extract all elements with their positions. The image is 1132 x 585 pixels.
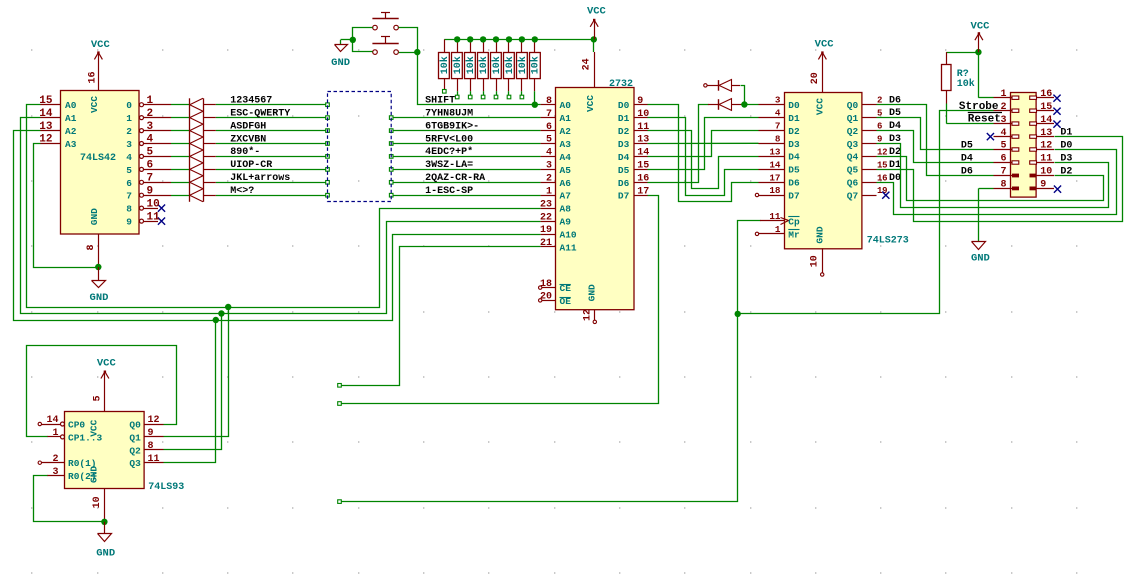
svg-text:ASDFGH: ASDFGH bbox=[230, 121, 266, 132]
svg-text:12: 12 bbox=[39, 134, 52, 146]
svg-text:8: 8 bbox=[546, 96, 552, 107]
svg-text:VCC: VCC bbox=[815, 98, 826, 115]
svg-text:14: 14 bbox=[39, 108, 53, 120]
svg-text:12: 12 bbox=[1040, 141, 1052, 152]
svg-text:A8: A8 bbox=[560, 204, 572, 215]
svg-text:1-ESC-SP: 1-ESC-SP bbox=[425, 186, 473, 197]
svg-text:7: 7 bbox=[126, 191, 132, 202]
svg-text:D1: D1 bbox=[1060, 127, 1072, 138]
svg-text:7: 7 bbox=[147, 173, 154, 185]
svg-text:3: 3 bbox=[1000, 115, 1006, 126]
svg-text:9: 9 bbox=[148, 428, 154, 439]
svg-text:D5: D5 bbox=[618, 165, 630, 176]
svg-text:A11: A11 bbox=[560, 242, 577, 253]
svg-text:10: 10 bbox=[92, 496, 103, 508]
svg-text:16: 16 bbox=[1040, 89, 1052, 100]
svg-text:4: 4 bbox=[1000, 128, 1006, 139]
svg-text:10k: 10k bbox=[439, 56, 451, 74]
svg-text:Q7: Q7 bbox=[847, 191, 859, 202]
svg-text:1: 1 bbox=[775, 224, 781, 235]
svg-text:VCC: VCC bbox=[91, 39, 111, 51]
svg-text:13: 13 bbox=[637, 135, 649, 146]
svg-text:1: 1 bbox=[126, 113, 132, 124]
svg-text:4EDC?+P*: 4EDC?+P* bbox=[425, 146, 473, 158]
svg-text:Q1: Q1 bbox=[847, 113, 859, 124]
svg-text:15: 15 bbox=[637, 161, 649, 172]
svg-text:12: 12 bbox=[582, 309, 593, 321]
svg-text:D3: D3 bbox=[618, 139, 630, 150]
svg-text:2: 2 bbox=[546, 174, 552, 185]
svg-text:Mr: Mr bbox=[788, 229, 800, 240]
svg-text:5: 5 bbox=[546, 135, 552, 146]
svg-text:1: 1 bbox=[147, 95, 154, 107]
svg-text:Q0: Q0 bbox=[847, 100, 859, 111]
svg-text:VCC: VCC bbox=[971, 20, 991, 32]
svg-text:SHIFT: SHIFT bbox=[425, 96, 455, 107]
svg-text:D5: D5 bbox=[961, 141, 973, 152]
svg-text:D1: D1 bbox=[788, 113, 800, 124]
svg-text:9: 9 bbox=[1040, 180, 1046, 191]
svg-text:VCC: VCC bbox=[97, 357, 117, 369]
svg-text:3: 3 bbox=[147, 121, 154, 133]
svg-text:13: 13 bbox=[769, 146, 781, 157]
svg-text:Strobe: Strobe bbox=[959, 101, 999, 113]
svg-text:3: 3 bbox=[52, 467, 58, 478]
svg-text:9: 9 bbox=[637, 96, 643, 107]
svg-text:2QAZ-CR-RA: 2QAZ-CR-RA bbox=[425, 173, 485, 184]
svg-text:20: 20 bbox=[540, 292, 552, 303]
svg-text:GND: GND bbox=[96, 547, 115, 559]
svg-text:Q6: Q6 bbox=[847, 178, 859, 189]
svg-text:R0(2): R0(2) bbox=[68, 471, 97, 482]
svg-text:7: 7 bbox=[775, 121, 781, 132]
svg-text:R0(1): R0(1) bbox=[68, 458, 97, 469]
svg-text:A0: A0 bbox=[560, 100, 572, 111]
svg-text:1234567: 1234567 bbox=[230, 96, 272, 107]
svg-text:5: 5 bbox=[93, 395, 104, 401]
svg-text:D1: D1 bbox=[618, 113, 630, 124]
svg-text:VCC: VCC bbox=[585, 95, 596, 112]
svg-text:23: 23 bbox=[540, 199, 552, 210]
svg-text:10k: 10k bbox=[491, 56, 503, 74]
svg-text:16: 16 bbox=[637, 174, 649, 185]
svg-text:VCC: VCC bbox=[587, 5, 607, 17]
svg-text:890*-: 890*- bbox=[230, 146, 260, 158]
svg-text:13: 13 bbox=[39, 121, 53, 133]
svg-text:8: 8 bbox=[86, 244, 97, 250]
svg-text:2: 2 bbox=[147, 108, 154, 120]
svg-text:Q1: Q1 bbox=[129, 432, 141, 443]
svg-text:Q2: Q2 bbox=[847, 126, 859, 137]
svg-text:A1: A1 bbox=[65, 113, 77, 124]
svg-text:14: 14 bbox=[46, 415, 58, 426]
svg-text:GND: GND bbox=[90, 292, 109, 304]
svg-text:74LS93: 74LS93 bbox=[148, 482, 184, 493]
svg-text:7: 7 bbox=[1000, 167, 1006, 178]
svg-text:D3: D3 bbox=[1060, 153, 1072, 164]
svg-text:4: 4 bbox=[126, 152, 132, 163]
svg-text:JKL+arrows: JKL+arrows bbox=[230, 173, 290, 184]
svg-text:74LS273: 74LS273 bbox=[867, 236, 909, 247]
svg-text:10k: 10k bbox=[465, 56, 477, 74]
svg-text:Q2: Q2 bbox=[129, 445, 141, 456]
svg-text:3: 3 bbox=[126, 139, 132, 150]
svg-text:8: 8 bbox=[126, 204, 132, 215]
svg-text:19: 19 bbox=[540, 225, 552, 236]
svg-text:D3: D3 bbox=[788, 139, 800, 150]
svg-text:11: 11 bbox=[1040, 154, 1052, 165]
svg-text:4: 4 bbox=[775, 108, 781, 119]
svg-text:D4: D4 bbox=[618, 152, 630, 163]
svg-text:A5: A5 bbox=[560, 165, 572, 176]
svg-text:UIOP-CR: UIOP-CR bbox=[230, 160, 272, 171]
svg-text:11: 11 bbox=[769, 211, 781, 222]
svg-text:9: 9 bbox=[147, 185, 154, 197]
svg-text:Q5: Q5 bbox=[847, 165, 859, 176]
svg-text:8: 8 bbox=[1000, 180, 1006, 191]
svg-text:14: 14 bbox=[1040, 115, 1052, 126]
svg-text:6: 6 bbox=[546, 122, 552, 133]
svg-text:A4: A4 bbox=[560, 152, 572, 163]
svg-text:CP0: CP0 bbox=[68, 420, 85, 431]
svg-text:7YHN8UJM: 7YHN8UJM bbox=[425, 108, 473, 119]
svg-text:D7: D7 bbox=[788, 191, 800, 202]
svg-text:8: 8 bbox=[775, 134, 781, 145]
svg-text:2: 2 bbox=[1000, 102, 1006, 113]
svg-text:VCC: VCC bbox=[815, 39, 835, 51]
svg-text:D2: D2 bbox=[1060, 166, 1072, 177]
svg-text:4: 4 bbox=[546, 148, 552, 159]
svg-text:GND: GND bbox=[586, 284, 597, 301]
svg-text:5: 5 bbox=[147, 147, 154, 159]
svg-text:10k: 10k bbox=[452, 56, 464, 74]
svg-text:VCC: VCC bbox=[89, 96, 100, 113]
svg-text:Q4: Q4 bbox=[847, 152, 859, 163]
svg-text:Q0: Q0 bbox=[129, 420, 141, 431]
svg-text:Cp: Cp bbox=[788, 216, 800, 227]
svg-text:Q3: Q3 bbox=[129, 458, 141, 469]
svg-text:1: 1 bbox=[1000, 89, 1006, 100]
svg-text:5RFV<L00: 5RFV<L00 bbox=[425, 134, 473, 145]
svg-text:A0: A0 bbox=[65, 100, 77, 111]
svg-text:7: 7 bbox=[546, 109, 552, 120]
svg-text:1: 1 bbox=[546, 186, 552, 197]
svg-text:13: 13 bbox=[1040, 128, 1052, 139]
svg-text:14: 14 bbox=[769, 159, 781, 170]
svg-text:24: 24 bbox=[582, 58, 593, 70]
svg-text:17: 17 bbox=[637, 186, 649, 197]
svg-text:6: 6 bbox=[1000, 154, 1006, 165]
svg-text:D4: D4 bbox=[788, 152, 800, 163]
svg-text:10k: 10k bbox=[530, 56, 542, 74]
svg-text:22: 22 bbox=[540, 212, 552, 223]
svg-text:Q3: Q3 bbox=[847, 139, 859, 150]
svg-text:A3: A3 bbox=[65, 139, 77, 150]
svg-text:D4: D4 bbox=[961, 154, 973, 165]
svg-text:D6: D6 bbox=[961, 167, 973, 178]
svg-text:14: 14 bbox=[637, 148, 649, 159]
svg-text:9: 9 bbox=[126, 217, 132, 228]
svg-text:2: 2 bbox=[52, 454, 58, 465]
svg-text:10: 10 bbox=[637, 109, 649, 120]
svg-text:16: 16 bbox=[877, 173, 887, 183]
svg-text:11: 11 bbox=[147, 211, 161, 223]
svg-text:0: 0 bbox=[126, 100, 132, 111]
svg-text:A6: A6 bbox=[560, 178, 572, 189]
svg-text:4: 4 bbox=[147, 134, 154, 146]
svg-text:A10: A10 bbox=[560, 230, 577, 241]
svg-text:D6: D6 bbox=[788, 178, 800, 189]
svg-text:CP1..3: CP1..3 bbox=[68, 432, 103, 443]
svg-text:GND: GND bbox=[971, 253, 990, 265]
svg-text:A3: A3 bbox=[560, 139, 572, 150]
svg-text:5: 5 bbox=[126, 165, 132, 176]
svg-text:6: 6 bbox=[126, 178, 132, 189]
svg-text:21: 21 bbox=[540, 238, 552, 249]
svg-text:11: 11 bbox=[637, 122, 649, 133]
svg-text:D6: D6 bbox=[618, 178, 630, 189]
svg-text:20: 20 bbox=[810, 72, 821, 84]
svg-text:A2: A2 bbox=[560, 126, 572, 137]
svg-text:1: 1 bbox=[52, 428, 58, 439]
svg-text:D0: D0 bbox=[618, 100, 630, 111]
svg-text:15: 15 bbox=[39, 95, 53, 107]
svg-text:GND: GND bbox=[815, 226, 826, 243]
svg-text:6: 6 bbox=[147, 160, 154, 172]
svg-text:D0: D0 bbox=[1060, 140, 1072, 151]
svg-text:10k: 10k bbox=[517, 56, 529, 74]
svg-text:A2: A2 bbox=[65, 126, 77, 137]
svg-text:17: 17 bbox=[769, 172, 780, 183]
svg-text:15: 15 bbox=[1040, 102, 1052, 113]
svg-text:3: 3 bbox=[546, 161, 552, 172]
svg-text:10k: 10k bbox=[478, 56, 490, 74]
svg-text:10: 10 bbox=[1040, 167, 1052, 178]
svg-text:74LS42: 74LS42 bbox=[80, 153, 116, 164]
svg-text:10: 10 bbox=[147, 198, 160, 210]
svg-text:D5: D5 bbox=[788, 165, 800, 176]
svg-text:ESC-QWERTY: ESC-QWERTY bbox=[230, 108, 290, 119]
svg-text:GND: GND bbox=[89, 208, 100, 225]
svg-text:A7: A7 bbox=[560, 191, 572, 202]
svg-text:18: 18 bbox=[769, 185, 781, 196]
svg-text:16: 16 bbox=[87, 71, 98, 83]
svg-text:D0: D0 bbox=[788, 100, 800, 111]
svg-text:10: 10 bbox=[810, 255, 821, 267]
svg-text:5: 5 bbox=[1000, 141, 1006, 152]
svg-text:D7: D7 bbox=[618, 191, 630, 202]
svg-text:A9: A9 bbox=[560, 217, 572, 228]
svg-text:ZXCVBN: ZXCVBN bbox=[230, 134, 266, 145]
svg-text:10k: 10k bbox=[957, 78, 975, 90]
svg-text:3WSZ-LA=: 3WSZ-LA= bbox=[425, 160, 473, 171]
svg-text:2732: 2732 bbox=[609, 79, 633, 90]
svg-text:D2: D2 bbox=[788, 126, 800, 137]
svg-text:3: 3 bbox=[775, 95, 781, 106]
svg-text:12: 12 bbox=[148, 415, 160, 426]
svg-text:18: 18 bbox=[540, 279, 552, 290]
svg-text:6TGB9IK>-: 6TGB9IK>- bbox=[425, 121, 479, 132]
svg-text:11: 11 bbox=[148, 454, 160, 465]
svg-text:M<>?: M<>? bbox=[230, 186, 254, 197]
svg-text:GND: GND bbox=[331, 57, 350, 69]
svg-text:A1: A1 bbox=[560, 113, 572, 124]
svg-text:8: 8 bbox=[148, 441, 154, 452]
svg-text:2: 2 bbox=[126, 126, 132, 137]
svg-text:D2: D2 bbox=[618, 126, 630, 137]
svg-text:15: 15 bbox=[877, 160, 887, 170]
svg-text:10k: 10k bbox=[504, 56, 516, 74]
